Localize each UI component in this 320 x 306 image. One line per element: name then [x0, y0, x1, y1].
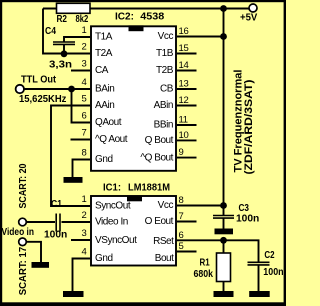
svg-text:SCART: 17: SCART: 17 [18, 246, 29, 295]
svg-text:16: 16 [179, 26, 189, 37]
wire top +5V bus [43, 8, 249, 10]
svg-text:IC2:: IC2: [115, 12, 134, 23]
wire C4 bottom lead [63, 45, 65, 54]
svg-text:10: 10 [179, 130, 189, 141]
svg-text:Vcc: Vcc [158, 200, 174, 211]
pin 5 Bout stub [177, 251, 197, 253]
wire RSet node [177, 240, 259, 261]
wire BAin to QAout pin 6 [72, 89, 91, 123]
svg-text:^Q Bout: ^Q Bout [140, 152, 173, 163]
svg-text:T2A: T2A [95, 48, 113, 59]
svg-text:3,3n: 3,3n [49, 60, 72, 71]
pin 12 stub [177, 105, 197, 107]
svg-text:100n: 100n [44, 230, 67, 241]
pin 10 stub [177, 139, 197, 141]
resistor R2 [57, 3, 91, 25]
ground IC1 Gnd [63, 291, 84, 297]
svg-text:T1B: T1B [156, 48, 174, 59]
op-amp U1: IC1 LM1881M body [91, 183, 176, 266]
svg-text:VSyncOut: VSyncOut [95, 235, 137, 246]
wire video in to C1 [27, 221, 56, 223]
IC2 pin labels right [140, 31, 173, 163]
svg-text:2: 2 [82, 210, 87, 221]
svg-text:ABin: ABin [154, 100, 173, 111]
ground C2 [249, 291, 270, 297]
pin 11 stub [177, 124, 197, 126]
svg-text:SyncOut: SyncOut [95, 201, 131, 212]
svg-text:680k: 680k [194, 269, 214, 280]
pin 9 stub [177, 157, 197, 159]
svg-text:15: 15 [179, 43, 189, 54]
IC1 pin labels left [95, 201, 137, 265]
svg-text:BAin: BAin [95, 84, 114, 95]
svg-text:Video In: Video In [95, 217, 128, 228]
svg-text:1: 1 [82, 194, 87, 205]
svg-text:8: 8 [82, 148, 87, 159]
svg-text:3: 3 [82, 228, 87, 239]
junction pin16 rail [220, 33, 227, 40]
svg-text:7: 7 [82, 128, 87, 139]
capacitor C4 [45, 26, 75, 71]
svg-text:1: 1 [82, 25, 87, 36]
capacitor C2 [248, 250, 284, 278]
capacitor C3 [213, 203, 259, 225]
junction IC1 Vcc rail [220, 202, 227, 209]
svg-text:12: 12 [179, 95, 189, 106]
wire left rail from R2 to pin2 [43, 9, 90, 54]
IC2 pin numbers left [82, 25, 87, 159]
svg-text:R1: R1 [200, 257, 211, 268]
resistor R1 [194, 253, 231, 282]
pin 15 stub [177, 53, 197, 55]
ground IC2 Gnd [64, 177, 83, 183]
svg-text:11: 11 [179, 115, 188, 126]
svg-text:BBin: BBin [154, 120, 173, 131]
ground R1 [214, 291, 234, 297]
svg-text:14: 14 [179, 60, 189, 71]
svg-text:Vcc: Vcc [158, 31, 174, 42]
svg-text:100n: 100n [236, 214, 259, 225]
wire +5V vertical rail [223, 9, 225, 216]
pin 7 ^QAout stub [71, 139, 91, 141]
svg-text:Gnd: Gnd [95, 154, 113, 165]
wire IC1 Vcc pin 8 [177, 205, 224, 207]
terminal +5V [240, 4, 258, 24]
wire R1 bottom lead [223, 282, 225, 292]
wire R1 top lead [223, 240, 225, 253]
IC2 pin labels left [95, 32, 128, 166]
terminal Video in [2, 218, 35, 238]
IC2 pin numbers right [179, 26, 189, 158]
junction C4/pin2 [61, 50, 68, 57]
svg-text:+5V: +5V [240, 13, 258, 24]
ground C3 [215, 229, 234, 235]
ground SCART17 [32, 262, 50, 268]
svg-text:T2B: T2B [156, 65, 174, 76]
svg-text:Bout: Bout [155, 253, 174, 264]
svg-text:9: 9 [179, 147, 184, 158]
wire pin 8 Gnd to ground [73, 160, 91, 178]
svg-text:RSet: RSet [153, 236, 174, 247]
wire C1 to pin 2 Video In [62, 221, 91, 223]
junction RSet node [220, 237, 227, 244]
svg-text:Video in: Video in [2, 227, 35, 238]
IC1 pin labels right [145, 200, 175, 264]
pin 7 O Eout stub [177, 221, 197, 223]
svg-text:C1: C1 [51, 199, 62, 210]
terminal TTL Out [16, 75, 67, 105]
junction top bus [220, 5, 227, 12]
svg-text:Gnd: Gnd [95, 253, 113, 264]
svg-text:8: 8 [179, 195, 184, 206]
svg-text:CB: CB [160, 84, 174, 95]
pin 3 CA stub [71, 70, 90, 72]
svg-text:TTL Out: TTL Out [21, 75, 57, 86]
pin 3 VSyncOut stub [71, 239, 90, 241]
svg-text:QAout: QAout [95, 117, 122, 128]
svg-text:2: 2 [82, 42, 87, 53]
svg-text:8k2: 8k2 [76, 14, 89, 25]
svg-text:LM1881M: LM1881M [128, 183, 170, 194]
wire C4 top to pin 1 T1A [64, 37, 90, 42]
wire TTL Out to pin 4 BAin [24, 88, 90, 90]
wire C2 bottom lead [258, 266, 260, 292]
svg-text:6: 6 [179, 230, 184, 241]
svg-text:Q Bout: Q Bout [145, 135, 174, 146]
svg-text:AAin: AAin [95, 100, 114, 111]
terminal SCART 17 [19, 238, 27, 246]
svg-text:6: 6 [82, 111, 87, 122]
svg-text:(ZDF/ARD/3SAT): (ZDF/ARD/3SAT) [243, 79, 255, 174]
svg-text:O Eout: O Eout [145, 216, 174, 227]
svg-text:C2: C2 [264, 250, 275, 261]
svg-text:5: 5 [82, 94, 87, 105]
svg-text:3: 3 [82, 59, 87, 70]
svg-text:R2: R2 [57, 14, 68, 25]
pin 14 stub [177, 70, 197, 72]
svg-text:100n: 100n [263, 267, 283, 278]
svg-text:4: 4 [82, 247, 87, 258]
svg-text:15,625KHz: 15,625KHz [19, 94, 66, 105]
svg-text:IC1:: IC1: [103, 183, 121, 194]
svg-text:5: 5 [179, 241, 184, 252]
wire AAin pin 5 to IC1 SyncOut [51, 106, 90, 207]
svg-text:^Q Aout: ^Q Aout [95, 134, 128, 145]
wire C3 bottom lead to ground [223, 218, 225, 229]
svg-text:T1A: T1A [95, 32, 113, 43]
svg-text:13: 13 [179, 79, 189, 90]
junction TTL/pin4 [68, 86, 75, 93]
capacitor C1 [44, 199, 67, 240]
op-amp U2: IC2 4538 body [91, 12, 176, 171]
svg-text:SCART: 20: SCART: 20 [18, 163, 29, 208]
svg-text:7: 7 [179, 211, 184, 222]
wire IC1 Gnd pin 4 to ground [73, 259, 91, 292]
IC1 pin numbers right [179, 195, 184, 252]
wire pin 16 Vcc to +5V rail [177, 36, 224, 38]
svg-text:C4: C4 [45, 26, 56, 37]
wire SCART17 to ground [27, 242, 42, 262]
border frame [0, 0, 286, 2]
svg-text:C3: C3 [239, 203, 250, 214]
pin 13 stub [177, 88, 197, 90]
svg-text:4: 4 [82, 77, 87, 88]
svg-text:4538: 4538 [140, 12, 164, 23]
IC1 pin numbers left [82, 194, 87, 258]
svg-text:CA: CA [95, 65, 109, 76]
